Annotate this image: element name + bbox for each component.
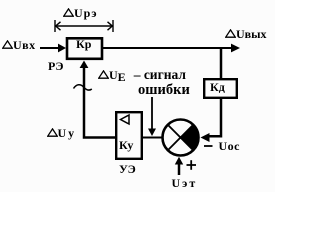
block Кр (регулирующий элемент РЭ)	[67, 38, 102, 59]
wire: Uэт arrow up into summer bottom	[175, 157, 183, 175]
wire: Ку output left then up into Кр	[80, 61, 116, 138]
minus sign near Uос input	[204, 145, 213, 147]
label Uэт (reference voltage)	[172, 177, 198, 189]
label РЭ under block	[48, 60, 63, 72]
dimension line ΔUрэ across Кр	[55, 20, 113, 32]
label ΔUвых (output voltage)	[225, 28, 267, 40]
wire: summer output to Ку	[143, 137, 162, 139]
label Кд inside block	[210, 81, 225, 93]
wire: Кд down and left into summing junction	[201, 98, 222, 142]
plus sign near Uэт input	[187, 160, 197, 170]
label Ку inside block	[119, 139, 133, 151]
label ΔUрэ (drop across РЭ)	[63, 7, 98, 19]
label ΔUвх (input voltage)	[2, 39, 36, 51]
wire: input from ΔUвх to Кр	[40, 44, 66, 53]
amplifier triangle symbol inside Ку	[121, 115, 130, 124]
label Uос (feedback voltage)	[219, 140, 241, 152]
wire: output from Кр to ΔUвых arrow	[103, 44, 240, 53]
label Кр inside block	[76, 38, 91, 50]
label ΔUу (control voltage)	[47, 127, 77, 139]
summing junction (circle with X, east sector filled)	[163, 120, 199, 156]
block Кд (датчик)	[204, 79, 237, 98]
wire: branch down to Кд	[220, 47, 223, 78]
arrow: error-signal label pointer down to wire	[148, 97, 156, 136]
block Ку (усилительный элемент УЭ)	[116, 112, 142, 159]
label УЭ under block	[119, 163, 136, 175]
break tilde on control wire	[74, 85, 92, 90]
annotation ΔUE – сигнал ошибки	[98, 68, 186, 83]
